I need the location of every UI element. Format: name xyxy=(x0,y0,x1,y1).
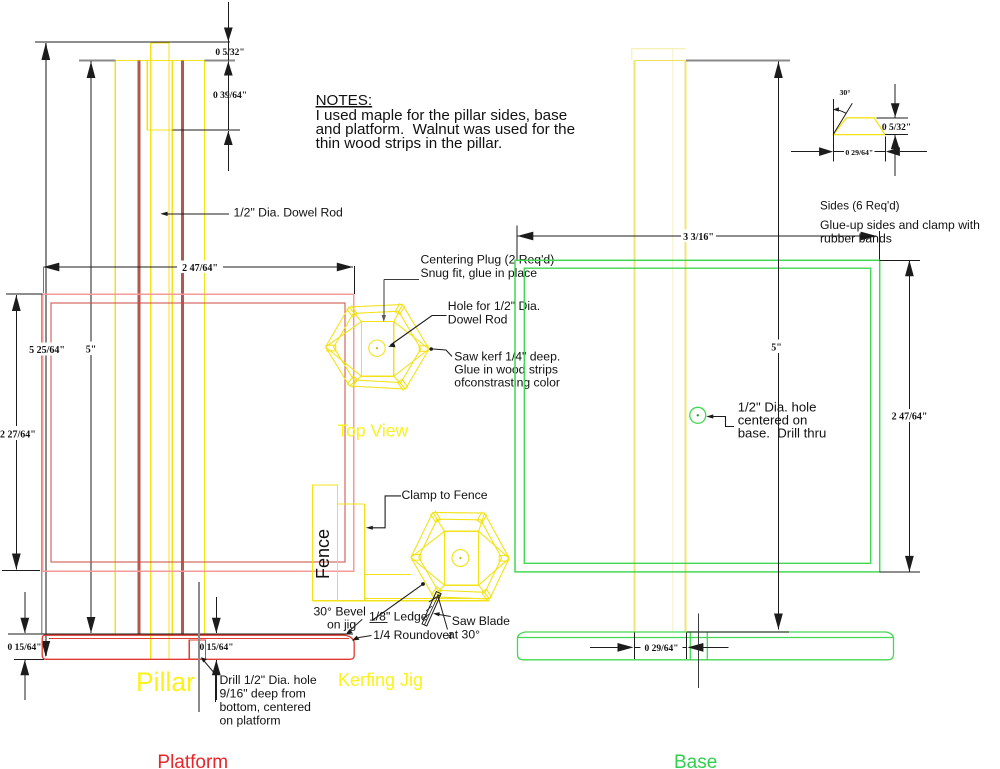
svg-text:Saw Blade: Saw Blade xyxy=(452,614,510,628)
base pillar column left xyxy=(633,61,635,633)
svg-text:5": 5" xyxy=(86,345,97,356)
drill leader arrow xyxy=(201,657,207,662)
svg-text:3 3/16": 3 3/16" xyxy=(683,232,714,243)
jig facet TL xyxy=(433,512,445,531)
dim line 2 27/64 xyxy=(15,295,17,570)
arrow right 3 3/16 xyxy=(861,232,877,241)
jig facet BR xyxy=(479,585,490,599)
pillar left side line xyxy=(114,61,116,634)
dim 0 29/64 side left line xyxy=(791,151,819,153)
base side top black segment xyxy=(687,631,789,633)
svg-text:0 29/64": 0 29/64" xyxy=(644,644,678,654)
facet line L-bottom xyxy=(326,347,362,376)
jig facet R-bottom xyxy=(479,558,510,585)
centering plug leader vertical xyxy=(383,280,385,318)
base top reference gray xyxy=(686,60,790,62)
svg-text:0 5/32": 0 5/32" xyxy=(882,123,911,133)
platform inner square xyxy=(51,303,345,562)
mask 5 base xyxy=(769,340,784,354)
base inner square xyxy=(524,268,870,563)
drill leader diagonal xyxy=(202,659,216,675)
jig facet L-top xyxy=(411,531,445,557)
jig circle xyxy=(452,550,469,567)
ext 3 3/16 left xyxy=(516,226,518,260)
ext line top left black xyxy=(6,293,43,295)
base side chamfer line xyxy=(518,637,894,639)
walnut strip left xyxy=(138,61,141,634)
mask 2 47/64 base xyxy=(890,409,929,422)
svg-text:Clamp to Fence: Clamp to Fence xyxy=(402,488,488,502)
angle arc arrow xyxy=(833,107,839,111)
platform outer square xyxy=(43,294,354,571)
bevel leader xyxy=(348,619,363,632)
svg-text:Platform: Platform xyxy=(157,752,228,769)
svg-text:Glue-up sides and clamp with: Glue-up sides and clamp with xyxy=(820,218,980,232)
ledge underline xyxy=(370,622,388,624)
mask 3 3/16 xyxy=(681,230,716,243)
saw kerf leader xyxy=(433,349,452,357)
svg-text:Glue in wood strips: Glue in wood strips xyxy=(454,363,558,377)
top view outer hexagon xyxy=(326,305,430,390)
saw blade tooth tick xyxy=(433,595,440,600)
svg-text:30° Bevel: 30° Bevel xyxy=(314,605,366,619)
mask 0 29/64 base xyxy=(641,642,683,654)
base hole circle xyxy=(690,407,706,423)
ledge leader line xyxy=(372,585,422,621)
dim 0 29/64 base mid line xyxy=(634,646,686,648)
arrow right 0 29/64 side xyxy=(819,147,833,156)
dowel hole right wall xyxy=(171,61,173,634)
top view inner hexagon xyxy=(334,311,421,382)
bevel leader arrow xyxy=(346,629,353,635)
ext line width left xyxy=(42,267,44,293)
saw blade hatch1 xyxy=(429,598,436,603)
facet line R-top xyxy=(394,322,429,349)
mask 5 xyxy=(84,342,99,356)
arrow down 5 25/64 bottom xyxy=(41,641,50,657)
platform centerline gray xyxy=(198,582,200,712)
svg-text:2 47/64": 2 47/64" xyxy=(182,263,218,274)
dim 0 15/64 right upper line xyxy=(215,597,217,633)
ext 3 3/16 right xyxy=(879,231,881,260)
arrow up 5 top xyxy=(87,62,96,79)
jig facet BL xyxy=(434,585,445,597)
svg-text:bottom, centered: bottom, centered xyxy=(220,700,311,714)
svg-text:Dowel Rod: Dowel Rod xyxy=(448,313,508,327)
dowel hole bottom xyxy=(147,129,172,131)
base pillar column right xyxy=(684,61,686,633)
base hole leader arrow xyxy=(706,414,713,418)
base hole center dot xyxy=(697,414,699,416)
hole label leader elbow xyxy=(391,316,447,346)
base hole section left xyxy=(689,633,691,661)
dim line 0 39/64 segment xyxy=(227,62,229,130)
svg-text:2 47/64": 2 47/64" xyxy=(892,412,928,423)
walnut strip right xyxy=(181,61,184,634)
arrow down 0 5/32 side xyxy=(891,103,900,117)
side bevel extension xyxy=(833,103,852,134)
svg-text:Drill 1/2" Dia. hole: Drill 1/2" Dia. hole xyxy=(220,673,317,687)
dim 0 15/64 right lower line xyxy=(215,660,217,700)
svg-text:Fence: Fence xyxy=(313,529,333,579)
jig inner hexagon xyxy=(419,519,502,592)
leader dowel arrow xyxy=(160,212,167,216)
svg-text:1/4 Roundover: 1/4 Roundover xyxy=(373,628,453,642)
ext 2 47/64 top xyxy=(880,259,920,261)
drill leader vertical xyxy=(215,675,217,703)
svg-text:Top View: Top View xyxy=(337,421,408,441)
dim 0 15/64 left upper line xyxy=(24,592,26,633)
dim line 2 47/64 base xyxy=(908,260,910,572)
kerf notch left xyxy=(326,345,336,351)
svg-text:1/2" Dia. Dowel Rod: 1/2" Dia. Dowel Rod xyxy=(234,206,343,220)
svg-text:Kerfing Jig: Kerfing Jig xyxy=(338,670,423,690)
platform side outline red xyxy=(42,635,354,659)
base outer square xyxy=(515,260,880,572)
jig kerf notch TR xyxy=(477,512,487,524)
svg-text:Pillar: Pillar xyxy=(136,667,195,697)
dim line 2 47/64 width xyxy=(43,266,353,268)
dim line 3 3/16 xyxy=(517,235,876,237)
svg-text:0 39/64": 0 39/64" xyxy=(213,91,247,101)
jig kerf notch BR xyxy=(482,589,492,601)
svg-text:5 25/64": 5 25/64" xyxy=(29,345,65,356)
arrow up at y61 xyxy=(224,62,233,76)
arrow down 5 base xyxy=(774,614,783,630)
arrow right 0 29/64 xyxy=(618,643,634,652)
side detail vertical ext xyxy=(832,99,834,162)
facet line L-top xyxy=(326,322,362,347)
platform side bottom black ext xyxy=(14,658,44,660)
at30 leader xyxy=(438,595,448,630)
centering plug leader horizontal xyxy=(384,279,419,281)
svg-text:0 15/64": 0 15/64" xyxy=(7,643,41,653)
centering plug leader arrow xyxy=(382,315,386,322)
svg-text:0 29/64": 0 29/64" xyxy=(845,148,873,157)
svg-text:Saw kerf 1/4" deep.: Saw kerf 1/4" deep. xyxy=(454,350,560,364)
base centerline xyxy=(698,614,700,689)
svg-text:0 5/32": 0 5/32" xyxy=(215,48,244,58)
arrow right 2 47/64 xyxy=(337,263,353,272)
svg-text:ofconstrasting color: ofconstrasting color xyxy=(454,376,560,390)
svg-text:thin wood strips in the pillar: thin wood strips in the pillar. xyxy=(316,135,503,152)
jig plug square xyxy=(444,531,478,585)
facet line BR xyxy=(394,376,406,389)
facet line R-bottom xyxy=(394,349,429,376)
saw blade leader xyxy=(436,614,451,617)
jig kerf notch BL xyxy=(431,587,441,599)
dim 0 5/32 lower line xyxy=(894,135,896,176)
dim 0 29/64 side right line xyxy=(900,151,927,153)
dim 0 15/64 left lower line xyxy=(24,660,26,700)
base ext right black xyxy=(686,633,688,660)
roundover leader arrow xyxy=(352,636,360,641)
arrow down at y42 xyxy=(224,28,233,42)
arrow up 2 47/64 base xyxy=(905,260,914,276)
arrow down 5 bottom xyxy=(87,617,96,633)
jig base lower line xyxy=(312,600,489,602)
arrow down right xyxy=(212,618,221,633)
arrow left 0 29/64 side xyxy=(886,147,900,156)
dim line between 42 and 60 xyxy=(227,42,229,61)
top extension line y42 xyxy=(35,41,230,43)
dowel hole center dot xyxy=(376,347,378,349)
ext 0 29/64 side right vertical xyxy=(885,136,887,161)
saw kerf leader dot xyxy=(429,347,433,351)
arrow left 2 47/64 xyxy=(43,263,59,272)
svg-text:on jig: on jig xyxy=(327,618,356,632)
clamp leader arrow xyxy=(366,526,373,530)
dim line 0 5/32 upper segment xyxy=(227,2,229,42)
arrow up 5 25/64 top xyxy=(41,43,50,60)
svg-text:Sides (6 Req'd): Sides (6 Req'd) xyxy=(820,200,900,213)
base pillar ghost vertical xyxy=(672,49,674,632)
platform side top black line xyxy=(8,633,353,635)
arrow left 3 3/16 xyxy=(517,232,533,241)
dowel rod right line xyxy=(168,43,170,659)
dowel hole left wall xyxy=(146,61,148,131)
svg-text:on platform: on platform xyxy=(220,714,281,728)
base pillar ghost step xyxy=(632,49,686,60)
kerf notch BL xyxy=(347,376,357,387)
arrow down 2 27/64 xyxy=(12,554,21,570)
arrow up 0 5/32 side xyxy=(891,135,900,149)
jig vertical face xyxy=(364,504,366,601)
ext line bottom left black xyxy=(2,570,40,572)
centering plug square xyxy=(361,322,393,377)
platform dowel hole rect xyxy=(189,640,205,659)
facet line TR xyxy=(394,305,403,322)
dim line below 130 xyxy=(227,131,229,171)
arrow up left xyxy=(20,660,29,675)
svg-text:base. Drill thru: base. Drill thru xyxy=(738,426,827,441)
pillar top reference line left (gray) xyxy=(79,60,115,62)
hole bottom extension line y130 xyxy=(172,129,240,131)
kerf notch BR xyxy=(398,379,408,390)
jig kerf notch TL xyxy=(430,511,440,523)
jig circle dot xyxy=(459,557,461,559)
base hole section right xyxy=(706,633,708,661)
kerf notch TL xyxy=(347,305,357,316)
base side outline lower xyxy=(518,638,894,660)
mask 5 25/64 xyxy=(28,343,66,356)
dim 0 5/32 upper line xyxy=(894,84,896,117)
jig base upper line xyxy=(365,598,490,600)
arrow left 0 29/64 xyxy=(687,643,703,652)
svg-text:rubber bands: rubber bands xyxy=(820,232,892,246)
roundover leader xyxy=(355,636,372,640)
base hole leader xyxy=(708,417,734,427)
clamp leader xyxy=(370,496,402,528)
dowel rod left line xyxy=(150,43,152,659)
ledge leader dot xyxy=(421,582,425,586)
dowel rod top edge xyxy=(151,42,169,44)
svg-text:30°: 30° xyxy=(840,88,851,97)
mask 2 47/64 xyxy=(177,261,223,274)
arrow up at y131 xyxy=(224,131,233,145)
facet line BL xyxy=(350,376,362,386)
dim 0 29/64 base left line xyxy=(590,646,620,648)
jig outer hexagon xyxy=(411,512,509,599)
base side left top curve xyxy=(518,632,526,638)
svg-text:9/16" deep from: 9/16" deep from xyxy=(220,687,306,701)
saw blade leader arrow xyxy=(433,612,440,616)
saw blade hatch2 xyxy=(426,606,432,611)
saw blade hatch3 xyxy=(423,614,429,619)
dim 0 29/64 side mid xyxy=(833,151,885,153)
jig facet L-bottom xyxy=(411,558,445,586)
mask 0 29/64 side xyxy=(844,146,875,157)
base ext left black xyxy=(633,633,635,660)
svg-text:Centering Plug (2 Req'd): Centering Plug (2 Req'd) xyxy=(421,253,555,267)
arrow down left xyxy=(20,618,29,633)
dim line 5 inch xyxy=(90,61,92,633)
pillar top edge xyxy=(115,60,204,62)
jig kerf notch left xyxy=(411,554,421,560)
fence rectangle xyxy=(312,485,337,601)
ext 2 47/64 bottom xyxy=(880,571,920,573)
base side top edge xyxy=(525,631,886,633)
extension gray line left of box xyxy=(41,294,43,634)
ext 0 5/32 bottom xyxy=(885,134,908,136)
arrow up 5 base xyxy=(774,62,783,79)
mask 2 27/64 xyxy=(0,426,36,440)
svg-text:0 15/64": 0 15/64" xyxy=(199,643,233,653)
angle arc xyxy=(833,110,846,114)
svg-text:Snug fit, glue in place: Snug fit, glue in place xyxy=(421,266,538,280)
kerf notch right xyxy=(419,346,428,352)
saw blade body xyxy=(422,592,441,626)
svg-text:Base: Base xyxy=(674,752,717,769)
jig facet TR xyxy=(479,513,485,531)
arrow up right xyxy=(212,660,221,675)
jig top edge xyxy=(338,503,365,505)
svg-text:Hole for 1/2" Dia.: Hole for 1/2" Dia. xyxy=(448,299,540,313)
svg-text:5": 5" xyxy=(771,343,782,354)
saw blade mid line xyxy=(424,595,438,625)
arrow up 2 27/64 xyxy=(12,295,21,311)
pillar top reference line right (gray) xyxy=(205,60,235,62)
kerf notch TR xyxy=(395,303,405,314)
dim line 5 25/64 (gray) xyxy=(45,43,47,656)
leader dowel rod xyxy=(162,213,229,215)
svg-text:1/8" Ledge: 1/8" Ledge xyxy=(369,610,428,624)
pillar right side line xyxy=(204,61,206,634)
svg-text:2 27/64": 2 27/64" xyxy=(0,430,36,441)
jig kerf notch right xyxy=(499,556,509,562)
ext line width right xyxy=(354,266,356,294)
dowel hole circle xyxy=(369,340,385,356)
ext 0 5/32 top xyxy=(877,117,908,119)
base side right top curve xyxy=(886,632,894,638)
hole label leader arrow xyxy=(388,343,395,348)
dim line 5 base xyxy=(777,62,779,630)
jig facet R-top xyxy=(479,531,510,558)
platform roundover edge line xyxy=(49,637,349,639)
jig ledge xyxy=(365,573,411,575)
base pillar column top xyxy=(634,60,685,62)
facet line TL xyxy=(349,307,361,322)
dim 0 29/64 base right line xyxy=(701,646,728,648)
side piece trapezoid xyxy=(833,118,885,135)
arrow down 2 47/64 base xyxy=(905,556,914,572)
